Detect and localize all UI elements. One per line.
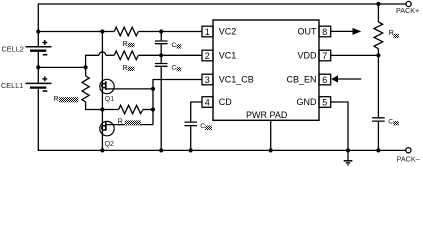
svg-text:8: 8: [322, 27, 327, 37]
wire right column middle: [377, 49, 379, 117]
wire left vertical CELL stack: [37, 32, 39, 47]
pin 4 box: [202, 97, 213, 108]
battery CELL1 long plate: [26, 82, 52, 84]
svg-text:R: R: [123, 41, 128, 48]
wire below CELL1 to bottom rail: [38, 88, 405, 150]
wire Q chain from row1: [101, 32, 103, 151]
label CELL2 plus: [42, 40, 47, 45]
wire top rail: [38, 4, 406, 32]
resistor R row2 zigzag: [114, 51, 138, 60]
battery CELL1 short plate: [30, 86, 46, 88]
capacitor C right plates: [372, 118, 385, 121]
wire hop over Q chain: [99, 52, 106, 55]
label CELL1 minus: [43, 90, 48, 92]
transistor Q2 gate bar: [105, 122, 107, 131]
svg-text:3: 3: [205, 75, 210, 85]
pin 5 box: [319, 97, 331, 108]
wire cap CD to rail: [190, 126, 192, 150]
svg-text:CELL1: CELL1: [1, 81, 23, 90]
terminal PACK+ circle: [406, 1, 411, 6]
pin 8 box: [319, 26, 331, 37]
svg-text:R: R: [389, 30, 394, 37]
svg-text:CB_EN: CB_EN: [286, 75, 316, 85]
wire vertical resistor top lead: [85, 67, 87, 76]
svg-text:VC1: VC1: [219, 51, 237, 61]
ground bar 1: [344, 160, 353, 162]
svg-text:C: C: [200, 123, 205, 130]
svg-text:Q1: Q1: [105, 96, 114, 103]
arrow OUT head: [353, 28, 362, 35]
IC U1 body: [213, 20, 319, 120]
svg-text:VC2: VC2: [219, 27, 237, 37]
ground bar 3: [347, 164, 349, 166]
svg-text:PACK–: PACK–: [397, 154, 420, 163]
wire PWR PAD to rail: [270, 120, 272, 150]
terminal PACK- circle: [406, 148, 411, 153]
svg-text:7: 7: [322, 51, 327, 61]
svg-text:5: 5: [322, 97, 327, 107]
svg-text:VDD: VDD: [297, 51, 317, 61]
wire row2 riser: [86, 55, 99, 67]
wire pin3 VC1_CB: [153, 80, 202, 125]
wire between cells: [37, 51, 39, 82]
transistor Q1 loop: [102, 84, 106, 88]
pin 6 box: [319, 74, 331, 85]
label CELL1 plus: [42, 76, 47, 81]
resistor R left vertical zigzag: [82, 76, 89, 102]
pin 7 box: [319, 50, 331, 61]
wire pin4 CD to cap: [191, 102, 202, 121]
wire pin6 CB_EN arrow line: [337, 78, 362, 80]
pin 1 box: [202, 26, 213, 37]
pin 3 box: [202, 74, 213, 85]
wire Q1 gate lead: [106, 88, 153, 90]
svg-text:R: R: [54, 96, 59, 103]
resistor R row1 zigzag: [114, 27, 138, 36]
transistor Q1 circle: [100, 79, 114, 93]
svg-text:OUT: OUT: [298, 27, 318, 37]
arrow CB_EN head: [331, 75, 338, 82]
wire cap column bottom to rail: [160, 67, 162, 150]
resistor R_CB zigzag: [119, 105, 143, 113]
svg-text:6: 6: [322, 75, 327, 85]
wire pin7 VDD to column: [331, 54, 379, 56]
transistor Q2 circle: [100, 121, 114, 135]
svg-text:R: R: [118, 119, 123, 126]
battery CELL2 short plate: [30, 50, 46, 52]
transistor Q2 loop: [102, 126, 106, 130]
svg-text:4: 4: [205, 97, 210, 107]
capacitor C1 plates: [155, 41, 168, 44]
wire row2 to pin2: [138, 54, 202, 56]
wire intercell horizontal: [38, 66, 85, 68]
label CELL2 minus: [43, 54, 48, 56]
wire right column bottom: [377, 122, 379, 151]
junction dots: [36, 29, 40, 33]
wire pin8 OUT arrow line: [331, 30, 355, 32]
svg-text:C: C: [172, 42, 177, 49]
wire right column top: [377, 4, 379, 22]
wire R_CB right lead: [143, 109, 153, 111]
wire row1 to pin1: [138, 31, 202, 33]
capacitor C_CD plates: [184, 122, 197, 126]
wire vertical resistor bottom lead: [86, 102, 103, 110]
svg-text:Q2: Q2: [105, 141, 114, 148]
svg-text:CELL2: CELL2: [2, 44, 24, 53]
wire row2 to resistor: [106, 54, 114, 56]
wire row1 VC2: [38, 31, 114, 33]
svg-text:CD: CD: [219, 97, 232, 107]
pin 2 box: [202, 50, 213, 61]
svg-text:R: R: [123, 65, 128, 72]
resistor R right vertical zigzag: [374, 22, 383, 49]
wire pin5 GND to rail: [331, 102, 348, 150]
svg-text:1: 1: [205, 27, 210, 37]
ground bar 2: [346, 162, 351, 164]
capacitor C2 plates: [155, 64, 168, 67]
wire Q2 gate lead: [106, 124, 153, 126]
svg-text:C: C: [388, 119, 393, 126]
svg-text:2: 2: [205, 51, 210, 61]
battery CELL2 long plate: [26, 46, 52, 48]
svg-text:GND: GND: [297, 97, 318, 107]
transistor Q1 gate bar: [105, 81, 107, 90]
svg-text:C: C: [172, 65, 177, 72]
ground stub: [347, 150, 349, 160]
svg-text:PACK+: PACK+: [396, 6, 419, 15]
wire cap column top: [160, 32, 162, 41]
svg-text:VC1_CB: VC1_CB: [219, 75, 254, 85]
svg-text:PWR PAD: PWR PAD: [246, 110, 288, 120]
wire R_CB left lead: [102, 109, 118, 111]
wire cap column middle: [160, 44, 162, 62]
